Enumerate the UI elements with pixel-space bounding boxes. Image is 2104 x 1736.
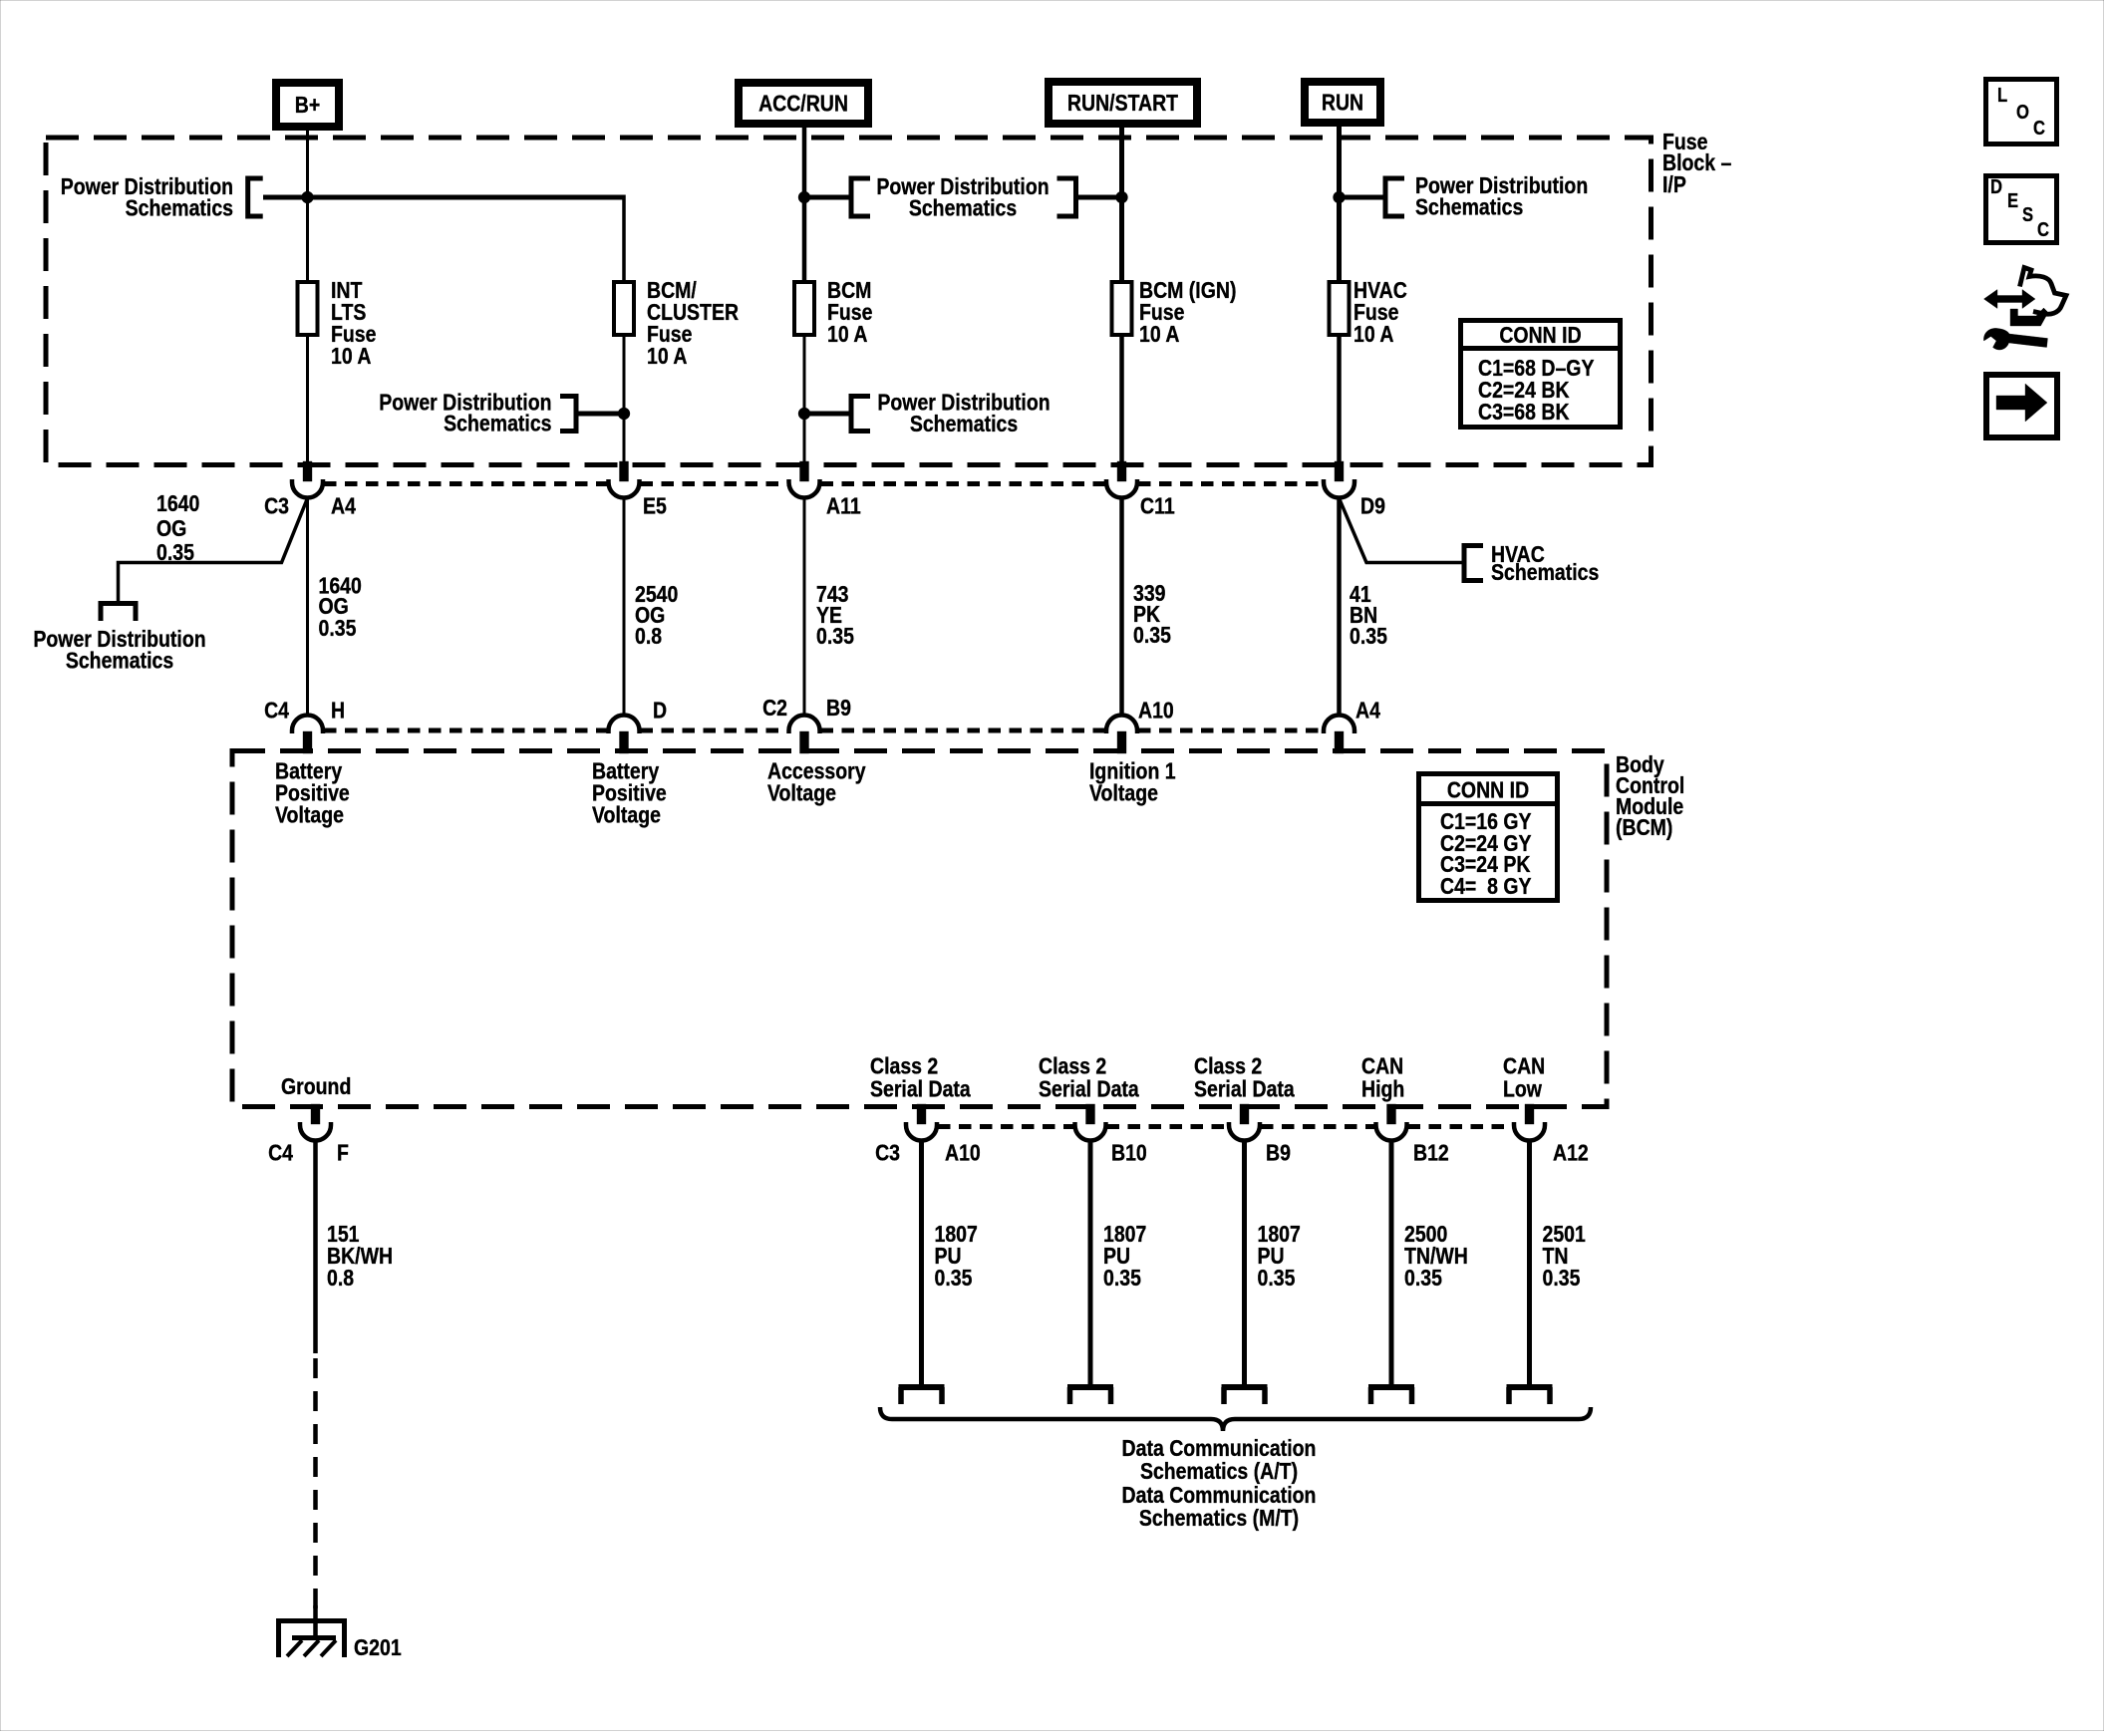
label Class 2 Serial Data (B9): [1194, 1052, 1296, 1102]
terminal 1807 PU 0.35 (B10): [1067, 1387, 1113, 1404]
label Class 2 Serial Data (B10): [1039, 1052, 1140, 1102]
wire link BCM/CLUSTER row2: [578, 412, 625, 417]
svg-text:A4: A4: [1355, 697, 1380, 723]
svg-text:CONN ID: CONN ID: [1499, 321, 1581, 348]
label wire 2540 OG 0.8: [635, 580, 678, 649]
BCM dashed border: [232, 751, 1607, 1107]
svg-text:0.35: 0.35: [935, 1264, 973, 1291]
label wire 41 BN 0.35: [1350, 580, 1387, 649]
bracket left shared Power Distribution row1: [851, 176, 870, 219]
icon LOC box: [1986, 80, 2057, 145]
pin label B12: [1413, 1139, 1449, 1166]
label G201: [354, 1633, 402, 1660]
svg-text:Voltage: Voltage: [1089, 779, 1158, 806]
svg-text:B12: B12: [1413, 1139, 1449, 1166]
wire HVAC fuse to connector D9: [1337, 335, 1342, 465]
connector arc A11: [789, 479, 820, 498]
wire link RUN row1: [1340, 195, 1383, 200]
svg-text:D: D: [653, 697, 667, 723]
label Ignition 1 Voltage: [1089, 757, 1176, 806]
connector arc H: [292, 716, 323, 734]
fuse INT LTS: [298, 282, 318, 335]
wire RUN/START feed: [1119, 128, 1124, 282]
wire BCM IGN fuse to connector C11: [1119, 335, 1124, 465]
label Power Distribution Schematics (ACC/RUN-RUN/START): [876, 172, 1049, 221]
connector stub C4 F: [311, 1104, 320, 1124]
power feed box ACC/RUN: [739, 83, 868, 124]
connector arc A4: [292, 479, 323, 498]
connector stub A4: [303, 461, 312, 481]
connector arc C4 F: [300, 1122, 331, 1141]
svg-text:H: H: [331, 697, 345, 723]
ground symbol G201: [279, 1605, 345, 1657]
svg-text:RUN: RUN: [1322, 89, 1363, 116]
svg-text:High: High: [1361, 1075, 1404, 1102]
connector stub D9: [1335, 461, 1344, 481]
svg-text:10 A: 10 A: [647, 342, 688, 369]
fuse HVAC: [1330, 282, 1350, 335]
label CAN Low: [1503, 1052, 1545, 1102]
junction dot BCM/CLUSTER row2: [618, 408, 630, 420]
svg-text:Low: Low: [1503, 1075, 1542, 1102]
svg-text:Schematics: Schematics: [66, 647, 173, 674]
svg-text:C3: C3: [264, 492, 289, 519]
bracket Power Distribution (BCM/CLUSTER): [560, 394, 576, 434]
bracket Power Distribution (ACC row2): [851, 394, 870, 434]
wire RUN feed: [1337, 127, 1342, 282]
svg-text:0.35: 0.35: [1350, 622, 1387, 649]
pin label D9: [1360, 492, 1385, 519]
wire BCM fuse to connector A11: [803, 335, 806, 465]
svg-text:A4: A4: [331, 492, 356, 519]
svg-text:G201: G201: [354, 1633, 402, 1660]
junction dot RUN/START row1: [1116, 191, 1128, 203]
wire ACC/RUN feed: [802, 128, 807, 282]
connector arc B12: [1376, 1122, 1407, 1141]
svg-text:0.35: 0.35: [1404, 1264, 1442, 1291]
label BCM (IGN) Fuse 10 A: [1139, 276, 1236, 347]
svg-text:CONN ID: CONN ID: [1447, 776, 1529, 803]
svg-text:O: O: [2016, 101, 2029, 124]
svg-text:Schematics (M/T): Schematics (M/T): [1139, 1504, 1299, 1531]
connector stub A12: [1525, 1104, 1534, 1124]
label wire 1640 OG 0.35 (branch): [156, 489, 199, 565]
terminal 1807 PU 0.35 (A10): [899, 1387, 945, 1404]
terminal 2500 TN/WH 0.35: [1368, 1387, 1414, 1404]
pin label C11: [1140, 492, 1175, 519]
svg-text:Schematics: Schematics: [444, 410, 551, 436]
svg-text:B9: B9: [826, 694, 851, 721]
connector stub B10: [1086, 1104, 1095, 1124]
connector stub H: [303, 731, 312, 753]
svg-text:0.35: 0.35: [1103, 1264, 1141, 1291]
svg-text:E: E: [2007, 189, 2018, 212]
pin label D: [653, 697, 667, 723]
label Battery Positive Voltage (C4 H): [275, 757, 350, 828]
fuse BCM (IGN): [1112, 282, 1132, 335]
wire D9 branch: [1340, 498, 1462, 563]
svg-text:Ground: Ground: [281, 1072, 351, 1099]
junction dot RUN row1: [1334, 191, 1346, 203]
svg-text:0.35: 0.35: [1258, 1264, 1296, 1291]
pin label A12: [1553, 1139, 1589, 1166]
label Ground: [281, 1072, 351, 1099]
connector stub A4-top: [1335, 731, 1344, 753]
wire 1807 PU 0.35 (B9): [1242, 1141, 1247, 1387]
label BCM/CLUSTER Fuse 10 A: [647, 276, 739, 369]
wire 151 BK/WH solid: [313, 1141, 318, 1353]
wire C3 branch: [119, 498, 308, 601]
wire 1640 OG: [306, 498, 309, 716]
label wire 743 YE 0.35: [816, 580, 854, 649]
svg-text:C4: C4: [268, 1139, 293, 1166]
label BCM Fuse 10 A: [827, 276, 872, 347]
svg-text:L: L: [1997, 84, 2007, 107]
junction dot ACC/RUN row1: [798, 191, 810, 203]
svg-text:C3: C3: [875, 1139, 900, 1166]
fuse BCM/CLUSTER: [614, 282, 634, 335]
svg-text:A10: A10: [1138, 697, 1174, 723]
svg-text:B10: B10: [1111, 1139, 1147, 1166]
svg-text:(BCM): (BCM): [1616, 813, 1672, 840]
CONN ID table (BCM): [1416, 774, 1560, 901]
bracket Power Distribution (B+): [248, 176, 263, 219]
svg-text:Schematics: Schematics: [126, 194, 233, 221]
label HVAC Fuse 10 A: [1353, 276, 1407, 347]
label Accessory Voltage: [767, 757, 866, 806]
svg-text:B9: B9: [1266, 1139, 1291, 1166]
bracket right shared Power Distribution row1: [1057, 176, 1076, 219]
label wire 1807 PU 0.35 (B10): [1103, 1220, 1146, 1291]
wire 339 PK: [1119, 498, 1124, 716]
wire 2500 TN/WH 0.35: [1389, 1141, 1394, 1387]
svg-text:Voltage: Voltage: [767, 779, 836, 806]
connector stub D: [620, 731, 629, 753]
pin label A10 top: [1138, 697, 1174, 723]
wire link B+ row to BCM/CLUSTER fuse: [263, 195, 624, 283]
label Body Control Module (BCM): [1616, 750, 1684, 840]
junction dot B+ link: [302, 191, 314, 203]
icon DESC box: [1986, 175, 2057, 243]
pin label C3 A10: [875, 1139, 981, 1166]
svg-text:A11: A11: [826, 492, 861, 519]
CONN ID table (fuse block): [1458, 321, 1623, 428]
svg-text:C: C: [2033, 117, 2045, 140]
svg-text:C4= 8 GY: C4= 8 GY: [1440, 872, 1532, 899]
svg-text:0.35: 0.35: [816, 622, 854, 649]
pin label B9 bottom: [1266, 1139, 1291, 1166]
svg-text:0.35: 0.35: [319, 614, 357, 641]
label wire 1640 OG 0.35: [319, 572, 362, 642]
connector arc C11: [1106, 479, 1137, 498]
junction dot ACC row2: [798, 408, 810, 420]
wire 151 BK/WH dashed: [313, 1358, 318, 1618]
connector stub C11: [1117, 461, 1126, 481]
wire 2501 TN 0.35: [1527, 1141, 1532, 1387]
label HVAC Schematics: [1491, 540, 1599, 585]
wire 743 YE: [803, 498, 806, 716]
svg-text:F: F: [337, 1139, 349, 1166]
pin label C4 F: [268, 1139, 349, 1166]
label Power Distribution Schematics (C3 branch): [33, 625, 205, 674]
connector arc D9: [1324, 479, 1354, 498]
label Class 2 Serial Data (A10): [870, 1052, 972, 1102]
connector arc B10: [1075, 1122, 1106, 1141]
svg-text:0.8: 0.8: [635, 622, 662, 649]
label INT LTS Fuse 10 A: [331, 276, 376, 369]
power feed box RUN/START: [1049, 82, 1197, 124]
svg-text:1640: 1640: [156, 489, 199, 516]
power feed box RUN: [1305, 82, 1380, 123]
label Power Distribution Schematics (BCM/CLUSTER): [379, 389, 551, 436]
connector stub E5: [620, 461, 629, 481]
connector stub B12: [1387, 1104, 1396, 1124]
wire 1807 PU 0.35 (B10): [1088, 1141, 1093, 1387]
label wire 2500 TN/WH 0.35: [1404, 1220, 1468, 1291]
svg-text:C2: C2: [762, 694, 787, 721]
svg-text:C4: C4: [264, 697, 289, 723]
svg-text:Serial Data: Serial Data: [1039, 1075, 1140, 1102]
label wire 339 PK 0.35: [1133, 579, 1171, 648]
svg-text:10 A: 10 A: [1139, 320, 1180, 347]
bracket HVAC Schematics: [1464, 543, 1483, 583]
label Power Distribution Schematics (ACC row2): [877, 389, 1050, 437]
svg-text:Voltage: Voltage: [592, 801, 661, 828]
svg-text:Serial Data: Serial Data: [1194, 1075, 1296, 1102]
icon arrow box: [1986, 375, 2057, 437]
label Power Distribution Schematics (B+): [61, 172, 233, 221]
svg-text:Schematics: Schematics: [1415, 193, 1523, 220]
bracket Power Distribution (RUN): [1385, 176, 1404, 219]
label Battery Positive Voltage (D): [592, 757, 667, 828]
svg-text:I/P: I/P: [1662, 170, 1686, 197]
wire INT LTS fuse to connector A4: [306, 335, 309, 465]
svg-text:Schematics: Schematics: [1491, 558, 1599, 585]
svg-text:RUN/START: RUN/START: [1067, 89, 1178, 116]
svg-text:A12: A12: [1553, 1139, 1589, 1166]
svg-text:10 A: 10 A: [827, 320, 868, 347]
terminal 1807 PU 0.35 (B9): [1222, 1387, 1268, 1404]
svg-text:D9: D9: [1360, 492, 1385, 519]
svg-text:0.8: 0.8: [327, 1264, 354, 1291]
pin label C4 H: [264, 697, 345, 723]
svg-text:ACC/RUN: ACC/RUN: [758, 90, 848, 117]
svg-text:E5: E5: [643, 492, 667, 519]
label CAN High: [1361, 1052, 1404, 1102]
svg-text:S: S: [2022, 203, 2033, 226]
svg-text:Voltage: Voltage: [275, 801, 344, 828]
label Power Distribution Schematics (RUN): [1415, 171, 1588, 220]
fuse block I/P dashed border: [46, 138, 1652, 465]
svg-text:Schematics: Schematics: [909, 194, 1017, 221]
pin label E5: [643, 492, 667, 519]
svg-text:A10: A10: [945, 1139, 981, 1166]
label wire 2501 TN 0.35: [1543, 1220, 1586, 1291]
icon wrench and arrows: [1983, 268, 2066, 351]
connector arc A4-top: [1324, 716, 1354, 734]
label wire 151 BK/WH 0.8: [327, 1220, 393, 1291]
connector arc B9-bot: [1229, 1122, 1260, 1141]
connector stub A10-top: [1117, 731, 1126, 753]
connector stub A10: [917, 1104, 926, 1124]
svg-text:Schematics: Schematics: [910, 410, 1018, 436]
label wire 1807 PU 0.35 (A10): [935, 1220, 978, 1291]
svg-text:10 A: 10 A: [1353, 320, 1394, 347]
wire 41 BN: [1337, 498, 1342, 716]
connector arc A10-top: [1106, 716, 1137, 734]
svg-text:0.35: 0.35: [1543, 1264, 1581, 1291]
connector arc E5: [609, 479, 640, 498]
pin label A11: [826, 492, 861, 519]
svg-text:D: D: [1990, 175, 2002, 198]
label Fuse Block - I/P: [1662, 128, 1731, 197]
svg-text:10 A: 10 A: [331, 342, 372, 369]
wire link ACC row2: [804, 412, 849, 417]
connector arc A10: [906, 1122, 937, 1141]
svg-text:B+: B+: [295, 91, 320, 118]
pin label B10: [1111, 1139, 1147, 1166]
connector row1 dotted line: [324, 481, 1323, 486]
wire BCM/CLUSTER fuse to connector E5: [623, 335, 626, 465]
svg-text:0.35: 0.35: [1133, 621, 1171, 648]
connector row3 dotted line: [938, 1124, 1513, 1129]
svg-text:Serial Data: Serial Data: [870, 1075, 972, 1102]
power feed box B+: [276, 83, 339, 127]
brace data communication: [880, 1407, 1591, 1431]
wire B+ feed: [306, 131, 309, 282]
wire link RUN/START row1: [1078, 195, 1122, 200]
connector arc D: [609, 716, 640, 734]
pin label A4 top: [1355, 697, 1380, 723]
connector stub B9-bot: [1240, 1104, 1249, 1124]
pin label C3 A4: [264, 492, 356, 519]
svg-text:0.35: 0.35: [156, 538, 194, 565]
wire 2540 OG: [623, 498, 626, 716]
terminal 2501 TN 0.35: [1507, 1387, 1553, 1404]
label wire 1807 PU 0.35 (B9): [1258, 1220, 1301, 1291]
label Data Communication Schematics: [1122, 1434, 1317, 1531]
bracket Power Distribution (C3 branch): [99, 604, 139, 622]
wire link ACC/RUN row1: [804, 195, 849, 200]
connector row2 dotted line: [324, 728, 1323, 733]
connector stub A11: [800, 461, 809, 481]
connector arc B9: [789, 716, 820, 734]
svg-text:C: C: [2037, 218, 2049, 241]
wire 1807 PU 0.35 (A10): [919, 1141, 924, 1387]
svg-text:C11: C11: [1140, 492, 1175, 519]
connector arc A12: [1514, 1122, 1545, 1141]
connector stub B9: [800, 731, 809, 753]
pin label C2 B9: [762, 694, 851, 721]
fuse BCM: [794, 282, 814, 335]
svg-text:C3=68 BK: C3=68 BK: [1478, 398, 1570, 425]
